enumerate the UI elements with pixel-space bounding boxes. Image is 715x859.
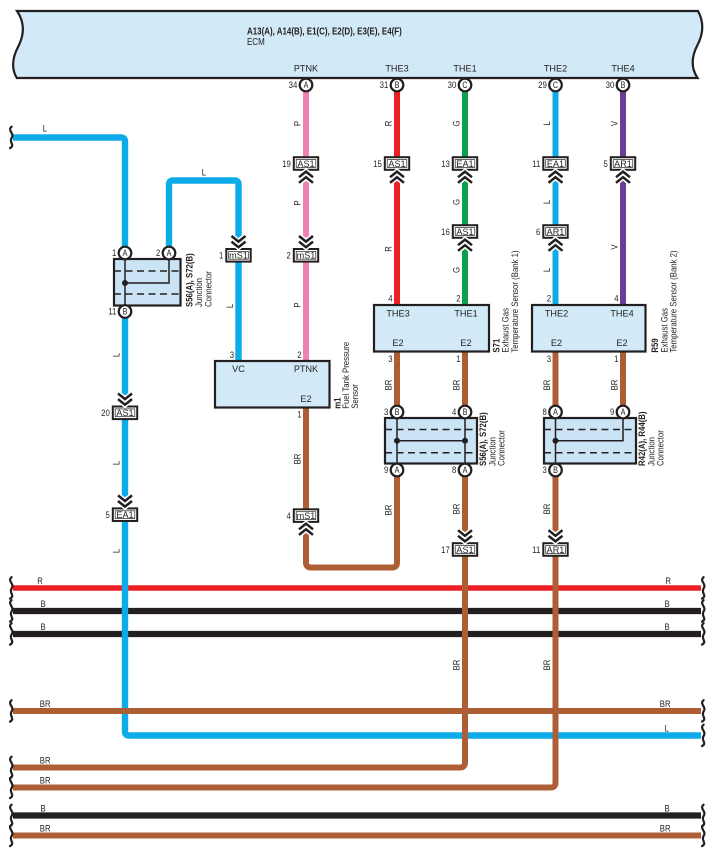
svg-text:Connector: Connector [656, 430, 667, 466]
svg-text:30: 30 [448, 80, 457, 91]
svg-text:P: P [293, 121, 304, 126]
svg-text:A: A [167, 248, 172, 258]
svg-text:3: 3 [384, 407, 388, 418]
wire L blue: left entry, down through junction, AS1, EA1, out right edge [13, 138, 701, 736]
svg-text:A: A [304, 80, 309, 90]
svg-text:BR: BR [542, 659, 553, 670]
svg-text:BR: BR [384, 379, 395, 390]
wire break symbols left edge [10, 127, 12, 148]
ECM pin 30 (C) THE1 [459, 79, 472, 92]
junction pin 8 (A) [459, 464, 472, 477]
svg-text:B: B [41, 804, 46, 815]
svg-text:PTNK: PTNK [294, 63, 319, 74]
svg-text:BR: BR [542, 379, 553, 390]
svg-text:E2: E2 [300, 393, 311, 404]
svg-text:L: L [542, 268, 553, 272]
wire BR: S71 E2 pin 1 to junction pin 4 [462, 351, 468, 406]
svg-text:L: L [225, 304, 236, 308]
svg-text:R: R [665, 576, 671, 587]
svg-text:BR: BR [40, 824, 51, 835]
svg-text:L: L [665, 724, 669, 735]
svg-text:AS1: AS1 [297, 158, 314, 169]
svg-text:EA1: EA1 [547, 158, 564, 169]
wire BR: right junction pin 3 down through 11 AR1 to left edge [13, 476, 556, 787]
junction pin 3 (B) [549, 464, 562, 477]
connector 19 AS1 on P wire [294, 157, 318, 170]
svg-text:R: R [37, 576, 43, 587]
svg-text:BR: BR [660, 699, 671, 710]
svg-text:B: B [395, 80, 400, 90]
svg-text:2: 2 [287, 251, 291, 262]
svg-text:3: 3 [388, 354, 392, 365]
svg-text:8: 8 [452, 465, 456, 476]
svg-text:E2: E2 [460, 337, 471, 348]
junction pin 1 (A) [119, 247, 132, 260]
svg-text:5: 5 [106, 510, 110, 521]
svg-text:B: B [665, 599, 670, 610]
svg-text:2: 2 [547, 294, 551, 305]
connector 1 mS1 on branch L wire [226, 249, 250, 262]
wire BR: junction pin 8 down through 17 AS1 to left edge [13, 476, 465, 767]
svg-text:EA1: EA1 [116, 509, 133, 520]
svg-text:3: 3 [543, 465, 547, 476]
connector 5 AR1 on V wire [611, 157, 635, 170]
wire BR: S71 E2 pin 3 to junction pin 3 [394, 351, 400, 406]
svg-text:BR: BR [452, 503, 463, 514]
svg-text:31: 31 [380, 80, 389, 91]
svg-text:8: 8 [543, 407, 547, 418]
wire BR: R59 E2 pin 1 to junction pin 9 [620, 351, 626, 406]
ECM pin 34 (A) PTNK [300, 79, 313, 92]
svg-text:THE2: THE2 [544, 63, 567, 74]
svg-text:B: B [665, 804, 670, 815]
svg-text:17: 17 [441, 545, 450, 556]
svg-text:P: P [293, 302, 304, 307]
junction connector S56(A), S72(B) middle block [385, 418, 477, 464]
svg-text:BR: BR [40, 756, 51, 767]
svg-text:THE1: THE1 [454, 308, 477, 319]
svg-text:G: G [452, 199, 463, 205]
svg-text:P: P [293, 200, 304, 205]
connector 20 AS1 on L wire [113, 407, 137, 420]
svg-text:L: L [112, 353, 123, 357]
svg-text:B: B [395, 407, 400, 417]
svg-text:3: 3 [230, 350, 234, 361]
svg-text:B: B [123, 307, 128, 317]
svg-text:16: 16 [441, 227, 450, 238]
svg-text:C: C [462, 80, 468, 90]
wire BR: R59 E2 pin 3 to junction pin 8 [553, 351, 559, 406]
svg-text:29: 29 [538, 80, 547, 91]
fuel tank pressure sensor m1 box [215, 361, 330, 408]
svg-text:1: 1 [456, 354, 460, 365]
svg-text:AS1: AS1 [388, 158, 405, 169]
junction pin 9 (A) [617, 406, 630, 419]
svg-text:BR: BR [384, 504, 395, 515]
junction pin 9 (A) [391, 464, 404, 477]
svg-text:A: A [463, 465, 468, 475]
svg-text:1: 1 [614, 354, 618, 365]
connector 15 AS1 on R wire [385, 157, 409, 170]
wire bus R (red) [13, 585, 701, 591]
connector 17 AS1 on BR wire [453, 543, 477, 556]
junction pin 8 (A) [549, 406, 562, 419]
svg-text:V: V [610, 244, 621, 250]
connector 13 EA1 on G wire [453, 157, 477, 170]
exhaust gas temperature sensor S71 (Bank 1) box [374, 305, 489, 352]
wire bus BR (brown) bottom [13, 833, 701, 839]
svg-text:VC: VC [232, 363, 245, 374]
junction connector R42(A), R44(B) block [544, 418, 636, 464]
junction pin 4 (B) [459, 406, 472, 419]
svg-text:BR: BR [452, 379, 463, 390]
svg-text:A: A [123, 248, 128, 258]
svg-text:BR: BR [542, 503, 553, 514]
svg-text:mS1: mS1 [297, 510, 316, 521]
svg-text:BR: BR [610, 379, 621, 390]
svg-text:Sensor: Sensor [350, 384, 361, 409]
svg-text:AR1: AR1 [547, 544, 565, 555]
svg-text:2: 2 [456, 294, 460, 305]
svg-text:L: L [112, 461, 123, 465]
svg-text:R: R [384, 121, 395, 127]
svg-text:A: A [553, 407, 558, 417]
svg-text:20: 20 [101, 408, 110, 419]
svg-text:mS1: mS1 [297, 250, 316, 261]
ECM connector block A13(A), A14(B), E1(C), E2(D), E3(E), E4(F) [13, 11, 702, 78]
svg-text:15: 15 [373, 159, 382, 170]
ECM pin 29 (C) THE2 [549, 79, 562, 92]
connector 16 AS1 on G wire [453, 225, 477, 238]
svg-text:9: 9 [384, 465, 388, 476]
svg-text:E2: E2 [616, 337, 627, 348]
svg-text:1: 1 [297, 410, 301, 421]
connector 2 mS1 on P wire [294, 249, 318, 262]
svg-text:THE4: THE4 [611, 63, 634, 74]
wire bus BR (brown) full width [13, 708, 701, 714]
exhaust gas temperature sensor R59 (Bank 2) box [532, 305, 646, 352]
svg-text:11: 11 [532, 545, 540, 556]
connector 11 EA1 on L wire [543, 157, 567, 170]
svg-text:THE3: THE3 [385, 63, 408, 74]
svg-text:AS1: AS1 [116, 407, 133, 418]
wire bus B (black) upper [13, 608, 701, 614]
svg-text:Temperature Sensor (Bank 1): Temperature Sensor (Bank 1) [510, 250, 521, 352]
svg-text:Connector: Connector [497, 430, 508, 466]
connector 6 AR1 on L wire [543, 225, 567, 238]
svg-text:Connector: Connector [203, 271, 214, 307]
svg-text:THE2: THE2 [545, 308, 568, 319]
svg-text:EA1: EA1 [456, 158, 473, 169]
svg-text:B: B [665, 622, 670, 633]
svg-text:11: 11 [532, 159, 540, 170]
svg-text:BR: BR [452, 659, 463, 670]
svg-text:5: 5 [604, 159, 608, 170]
svg-text:mS1: mS1 [229, 250, 248, 261]
svg-text:L: L [43, 123, 47, 134]
wire V violet: ECM pin 30 to THE4 [620, 85, 626, 305]
wire bus B (black) bottom [13, 812, 701, 818]
svg-text:B: B [41, 622, 46, 633]
svg-text:A: A [395, 465, 400, 475]
svg-text:1: 1 [112, 248, 116, 259]
svg-text:B: B [41, 599, 46, 610]
svg-text:4: 4 [614, 294, 618, 305]
ECM pin 30 (B) THE4 [617, 79, 630, 92]
svg-text:Temperature Sensor (Bank 2): Temperature Sensor (Bank 2) [669, 250, 680, 352]
connector 4 mS1 on BR wire [294, 509, 318, 522]
svg-text:B: B [463, 407, 468, 417]
svg-text:L: L [542, 200, 553, 204]
junction connector S56(A), S72(B) left block [114, 259, 181, 306]
wire G green: ECM pin 30 to THE1 [462, 85, 468, 305]
svg-text:R: R [384, 246, 395, 252]
junction pin 11 (B) [119, 305, 132, 318]
svg-text:BR: BR [40, 776, 51, 787]
wire L blue branch: junction pin 2 up, right, down to 1 mS1 and sensor VC [169, 181, 239, 362]
svg-text:A13(A), A14(B), E1(C), E2(D),: A13(A), A14(B), E1(C), E2(D), E3(E), E4(… [247, 27, 402, 38]
svg-text:9: 9 [610, 407, 614, 418]
wire break symbols right edge [702, 577, 704, 598]
connector 11 AR1 on BR wire [543, 543, 567, 556]
svg-text:13: 13 [441, 159, 450, 170]
svg-text:AS1: AS1 [456, 544, 473, 555]
svg-text:E2: E2 [392, 337, 403, 348]
svg-text:ECM: ECM [247, 37, 265, 48]
svg-text:B: B [621, 80, 626, 90]
wire P pink: ECM pin 34 to sensor PTNK [303, 85, 309, 361]
svg-text:11: 11 [108, 307, 116, 318]
svg-text:L: L [112, 549, 123, 553]
svg-text:19: 19 [282, 159, 291, 170]
svg-text:PTNK: PTNK [294, 363, 319, 374]
svg-text:4: 4 [388, 294, 392, 305]
wire L blue: ECM pin 29 to THE2 [553, 85, 559, 305]
svg-text:AR1: AR1 [614, 158, 632, 169]
svg-text:34: 34 [289, 80, 298, 91]
svg-text:G: G [452, 267, 463, 273]
svg-text:6: 6 [536, 227, 540, 238]
svg-text:A: A [621, 407, 626, 417]
wire bus B (black) second [13, 631, 701, 637]
connector 5 EA1 on L wire [113, 508, 137, 521]
svg-text:3: 3 [547, 354, 551, 365]
svg-text:2: 2 [297, 350, 301, 361]
svg-text:B: B [553, 465, 558, 475]
wire R red: ECM pin 31 to THE3 [394, 85, 400, 305]
svg-text:L: L [202, 167, 206, 178]
svg-text:L: L [542, 121, 553, 125]
svg-text:2: 2 [156, 248, 160, 259]
wire BR: sensor E2 via 4 mS1 down, right, up to junction pin 9 [306, 408, 397, 568]
junction pin 2 (A) [163, 247, 176, 260]
svg-text:V: V [610, 120, 621, 126]
svg-text:AS1: AS1 [456, 226, 473, 237]
svg-text:G: G [452, 120, 463, 126]
junction pin 3 (B) [391, 406, 404, 419]
svg-text:BR: BR [660, 824, 671, 835]
svg-text:BR: BR [293, 453, 304, 464]
svg-text:E2: E2 [551, 337, 562, 348]
svg-text:4: 4 [287, 511, 291, 522]
svg-text:30: 30 [606, 80, 615, 91]
svg-text:1: 1 [219, 251, 223, 262]
svg-text:THE4: THE4 [610, 308, 633, 319]
svg-text:C: C [553, 80, 559, 90]
svg-text:THE3: THE3 [386, 308, 409, 319]
svg-text:BR: BR [40, 699, 51, 710]
svg-text:THE1: THE1 [453, 63, 476, 74]
svg-text:4: 4 [452, 407, 456, 418]
svg-text:AR1: AR1 [547, 226, 565, 237]
ECM pin 31 (B) THE3 [391, 79, 404, 92]
